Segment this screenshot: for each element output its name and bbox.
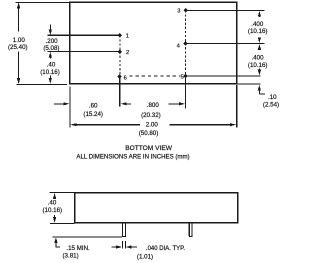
- pin 4 junction dot: [183, 41, 187, 46]
- svg-text:(25.40): (25.40): [8, 44, 28, 51]
- pin 2 junction dot: [118, 49, 122, 54]
- dimension .60 right arrow: [121, 102, 127, 105]
- pin A extension lines for .040 dim: [122, 241, 124, 248]
- pin 1 lead line: [48, 34, 120, 36]
- dimension .040 left arrow: [112, 246, 118, 248]
- pin 4 lead line: [186, 42, 265, 44]
- dimension 1.00 lower arrowhead: [17, 78, 20, 84]
- pin 1 junction dot: [118, 33, 122, 38]
- svg-text:(1.01): (1.01): [137, 253, 153, 260]
- svg-text:ALL DIMENSIONS ARE IN INCHES (: ALL DIMENSIONS ARE IN INCHES (mm): [76, 153, 189, 160]
- dimension 1.00 upper arrowhead: [17, 2, 20, 8]
- dimension .40 lower arrowhead (down to bottom line): [49, 78, 52, 84]
- extension line below left edge: [69, 87, 71, 128]
- extension line bottom-left (1.00 dim): [17, 83, 68, 85]
- svg-text:.15 MIN.: .15 MIN.: [66, 245, 90, 252]
- dimension .60 left arrow: [54, 103, 65, 105]
- extension line top-left (1.00 dim): [15, 1, 70, 3]
- dimension 2.00 line right segment: [170, 124, 232, 126]
- svg-text:(5.08): (5.08): [43, 45, 59, 52]
- svg-text:.040 DIA. TYP.: .040 DIA. TYP.: [146, 246, 185, 252]
- dimension .15 MIN pin-tip line: [53, 236, 123, 238]
- pin 5 junction dot: [183, 74, 187, 79]
- dimension .15 MIN leader: [56, 243, 60, 247]
- dimension .040 right arrow: [126, 245, 132, 248]
- side view top extension line: [50, 192, 75, 194]
- side view bottom extension line: [50, 222, 75, 224]
- pin 3 lead line: [186, 9, 265, 11]
- svg-text:.40: .40: [48, 199, 57, 206]
- dimension .400 (pins 3-4) bottom arrow: [258, 37, 260, 38]
- dimension 1.00 line lower segment: [18, 52, 20, 80]
- pin B (side view): [189, 223, 193, 236]
- pin 3 junction dot: [183, 8, 187, 13]
- dimension 2.00 line left segment: [70, 123, 76, 126]
- dimension 1.00 line upper segment: [18, 7, 20, 32]
- extension line bottom-right: [237, 83, 260, 85]
- dimension .400 (pins 3-4) top arrow: [258, 11, 261, 17]
- svg-text:(3.81): (3.81): [63, 253, 79, 260]
- dimension .800 right arrow: [169, 103, 181, 105]
- dimension .200 upper tail: [49, 24, 51, 30]
- pin 2 lead line: [48, 51, 120, 53]
- pin A (side view): [122, 223, 126, 236]
- pin 6 junction dot: [117, 74, 121, 79]
- dimension .400 (pins 4-5) bottom arrow: [258, 69, 260, 71]
- dimension .40 left tail: [49, 57, 51, 60]
- dimension .10 arrow and leader: [258, 85, 261, 91]
- svg-text:1.00: 1.00: [13, 37, 26, 44]
- svg-text:(10.16): (10.16): [42, 207, 62, 214]
- svg-text:(10.16): (10.16): [248, 28, 268, 35]
- dimension .200 upper arrowhead (down to pin1 line): [49, 29, 52, 35]
- hidden line pins 1-2-6 (dashed): [119, 35, 121, 76]
- svg-text:(50.80): (50.80): [139, 130, 159, 137]
- svg-text:1: 1: [126, 34, 129, 40]
- svg-text:.10: .10: [268, 94, 277, 101]
- svg-text:(2.54): (2.54): [263, 101, 279, 108]
- svg-text:2: 2: [126, 50, 129, 56]
- extension line below right edge: [236, 85, 238, 128]
- svg-text:.800: .800: [147, 102, 160, 109]
- hidden line pin6 to pin5 (dashed): [129, 75, 180, 77]
- pin 5 lead line: [186, 75, 261, 77]
- package outline (side view): [75, 193, 238, 223]
- svg-text:(10.16): (10.16): [248, 62, 268, 69]
- svg-text:BOTTOM VIEW: BOTTOM VIEW: [125, 145, 173, 152]
- dimension .200 lower arrowhead (up to pin2 line): [49, 52, 52, 58]
- package outline (bottom view): [70, 2, 237, 83]
- dimension .15 MIN up arrow: [54, 237, 57, 243]
- dimension .40 (side) lower arrow: [54, 215, 56, 218]
- svg-text:(15.24): (15.24): [83, 111, 103, 118]
- svg-text:5: 5: [181, 75, 184, 81]
- svg-text:.400: .400: [251, 21, 264, 28]
- extension line below pin6 column: [119, 77, 121, 107]
- dimension .40 left lower tail: [49, 76, 51, 80]
- svg-text:6: 6: [124, 75, 127, 81]
- svg-text:(10.16): (10.16): [40, 69, 60, 76]
- svg-text:(20.32): (20.32): [141, 112, 161, 119]
- svg-text:2.00: 2.00: [146, 121, 159, 128]
- svg-text:.40: .40: [47, 62, 56, 69]
- dimension .400 (pins 4-5) top arrow: [258, 44, 261, 50]
- extension line below pin5 column: [185, 76, 187, 108]
- svg-text:3: 3: [177, 9, 180, 15]
- hidden line pins 3-4-5 (dashed): [185, 10, 187, 76]
- dimension .40 (side) upper arrow: [53, 193, 56, 199]
- svg-text:.400: .400: [251, 54, 264, 61]
- svg-text:.60: .60: [89, 102, 98, 109]
